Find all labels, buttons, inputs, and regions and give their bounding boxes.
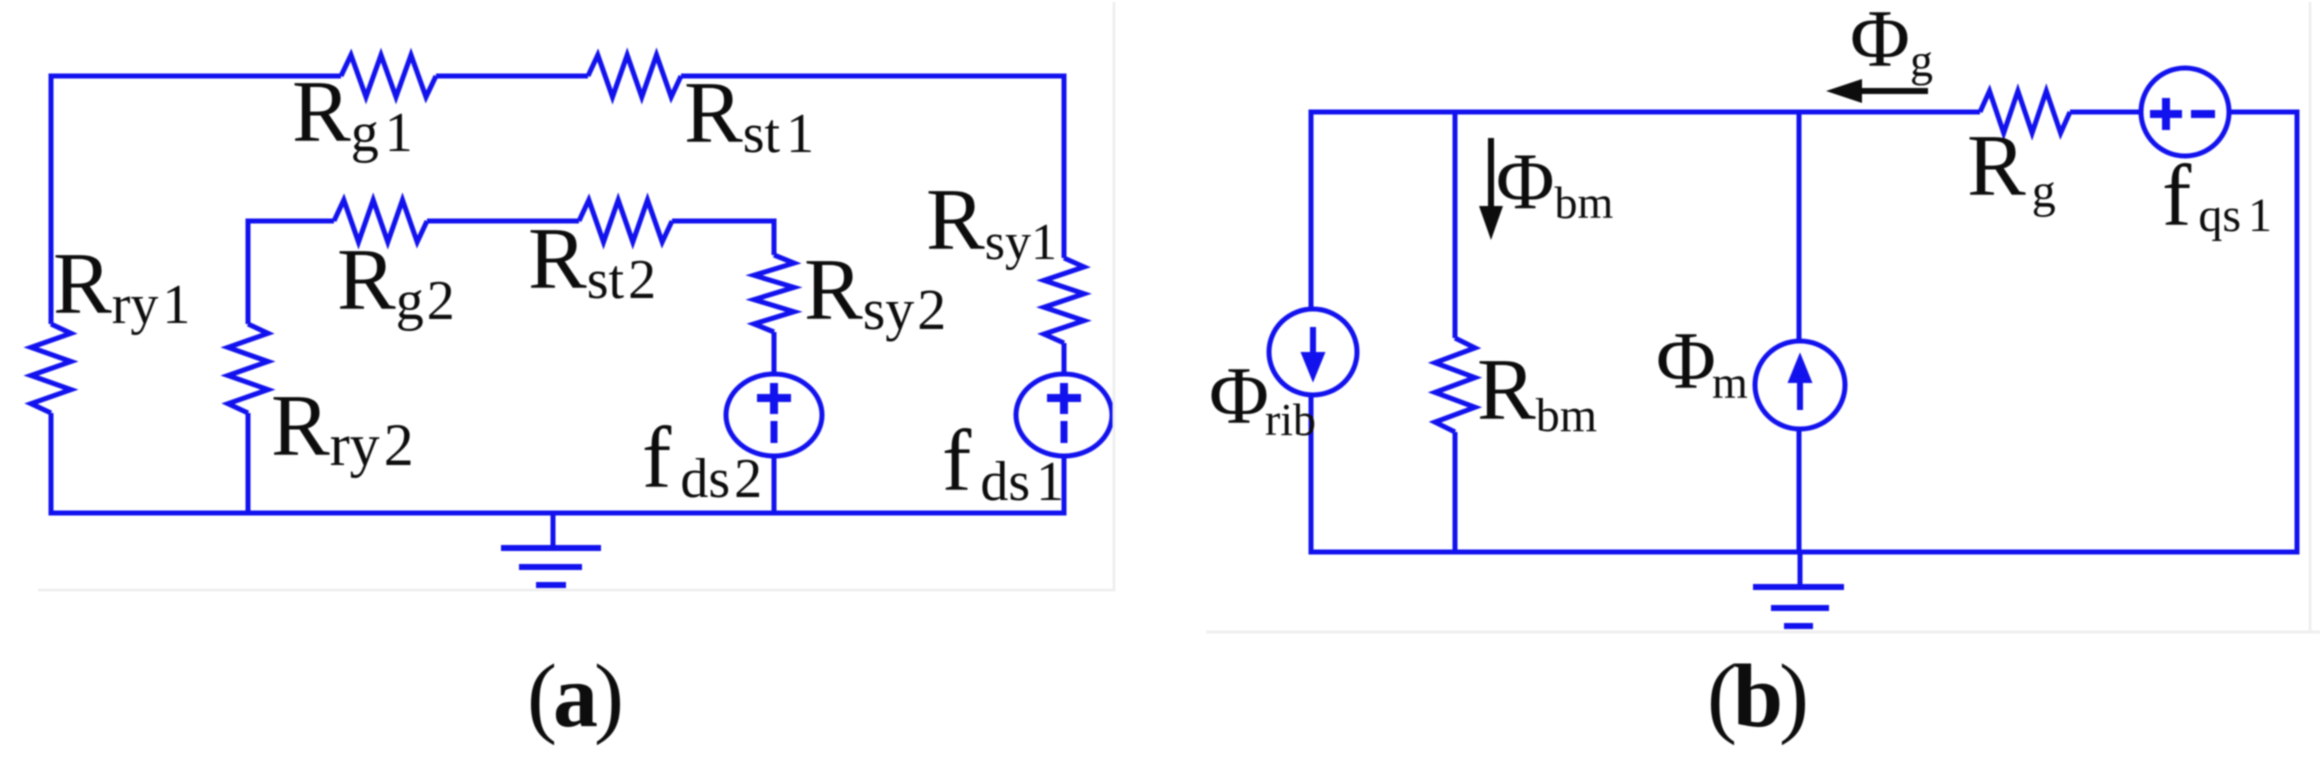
- wire (a) bottom: [49, 511, 1067, 516]
- svg-text:Rry1: Rry1: [53, 236, 190, 336]
- wire (b) left lower segment: [1309, 395, 1314, 555]
- wire (a) top-left segment: [49, 74, 342, 79]
- svg-text:Rbm: Rbm: [1477, 342, 1597, 442]
- wire (b) bottom: [1309, 550, 2300, 555]
- resistor R_st2: [579, 200, 672, 242]
- svg-text:fds2: fds2: [642, 410, 762, 510]
- resistor R_sy1: [1044, 258, 1084, 343]
- svg-text:Φg: Φg: [1850, 0, 1933, 86]
- wire (a) right middle segment: [1062, 343, 1067, 375]
- svg-text:Rsy1: Rsy1: [926, 172, 1057, 271]
- wire (b) top segment left: [1309, 110, 1981, 115]
- resistor R_sy2: [754, 255, 794, 332]
- mmf source f_ds2 symbol: [726, 374, 822, 456]
- wire (a) f_ds2 lower segment: [772, 456, 777, 513]
- sub-image (b) faint border: [1206, 2, 2320, 632]
- wire (b) right segment: [2295, 110, 2300, 555]
- wire (b) Phi_m branch lower segment: [1797, 429, 1802, 552]
- wire (b) R_bm branch lower segment: [1453, 432, 1458, 552]
- mmf source f_qs1 symbol: [2141, 68, 2229, 156]
- svg-text:(a): (a): [527, 647, 621, 746]
- svg-text:Rsy2: Rsy2: [804, 242, 946, 342]
- wire (a) R_sy2 to f_ds2 segment: [772, 332, 777, 375]
- wire (a) right lower segment: [1062, 456, 1067, 513]
- wire (b) R_bm branch upper segment: [1453, 112, 1458, 338]
- wire (a) left lower segment: [49, 413, 54, 516]
- svg-text:Rg1: Rg1: [292, 64, 413, 164]
- flux source Phi_rib symbol: [1269, 309, 1357, 395]
- mmf source f_ds1 symbol: [1016, 374, 1112, 456]
- ground (a): [551, 513, 556, 548]
- wire (a) inner top-middle segment: [427, 219, 579, 224]
- wire (b) top right corner segment: [2229, 110, 2300, 115]
- wire (a) inner left lower segment: [246, 413, 251, 513]
- arrow Phi_g (flux direction): [1861, 88, 1928, 94]
- svg-text:(b): (b): [1707, 647, 1806, 746]
- svg-text:Rg: Rg: [1967, 118, 2056, 218]
- wire (b) Phi_m branch upper segment: [1797, 112, 1802, 341]
- wire (a) right upper segment: [1062, 74, 1067, 259]
- resistor R_g: [1980, 91, 2070, 133]
- wire (a) top-middle segment: [436, 74, 588, 79]
- wire (a) top-right segment: [681, 74, 1067, 79]
- svg-text:Φrib: Φrib: [1209, 350, 1316, 445]
- svg-text:Φbm: Φbm: [1496, 138, 1613, 228]
- svg-text:Rg2: Rg2: [337, 232, 455, 332]
- wire (b) left upper segment: [1309, 110, 1314, 310]
- svg-text:fqs1: fqs1: [2162, 148, 2272, 245]
- resistor R_bm: [1435, 338, 1475, 432]
- arrow Phi_bm (flux direction): [1488, 138, 1494, 212]
- flux source Phi_m symbol: [1755, 341, 1845, 429]
- svg-text:Rst1: Rst1: [684, 65, 814, 165]
- resistor R_g1: [341, 55, 436, 97]
- svg-text:Φm: Φm: [1656, 315, 1748, 408]
- resistor R_ry1: [31, 324, 71, 413]
- wire (a) left upper segment: [49, 74, 54, 325]
- wire (a) inner top-left segment: [246, 219, 335, 224]
- wire (a) inner top-right corner: [672, 221, 774, 255]
- wire (a) inner left upper segment: [246, 219, 251, 325]
- wire (b) top segment right of R_g: [2070, 110, 2142, 115]
- sub-image (a) faint border: [38, 2, 1114, 590]
- svg-text:fds1: fds1: [942, 413, 1064, 513]
- svg-text:Rry2: Rry2: [271, 378, 414, 478]
- resistor R_st1: [588, 55, 681, 97]
- resistor R_g2: [334, 200, 427, 242]
- resistor R_ry2: [228, 324, 268, 413]
- ground (b): [1798, 552, 1803, 587]
